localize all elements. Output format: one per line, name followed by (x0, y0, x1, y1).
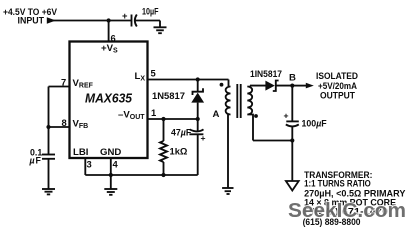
capacitor C2 0.1uF (29, 148, 56, 190)
svg-text:OUTPUT: OUTPUT (320, 90, 355, 101)
svg-text:+: + (284, 110, 289, 120)
svg-text:µ: µ (29, 156, 35, 166)
svg-text:1kΩ: 1kΩ (170, 146, 188, 157)
watermark (288, 199, 406, 222)
isolated common triangle (286, 181, 299, 191)
transformer T1 primary (226, 80, 231, 189)
pin 8 stub (49, 126, 70, 128)
wire input to cap (53, 20, 131, 22)
svg-text:1N5817: 1N5817 (152, 91, 185, 101)
wire to isolated common (291, 141, 293, 182)
wire vref to vfb (48, 87, 50, 155)
transformer note (303, 170, 406, 228)
svg-text:SeekIC.com: SeekIC.com (288, 199, 406, 222)
IC U1 MAX635 (70, 42, 148, 159)
capacitor C3 47uF (171, 119, 206, 175)
svg-text:3: 3 (87, 159, 92, 170)
svg-text:+: + (122, 10, 128, 21)
svg-text:A: A (213, 109, 220, 120)
svg-text:10µF: 10µF (142, 7, 159, 17)
output label (316, 71, 358, 101)
svg-text:INPUT: INPUT (18, 16, 45, 27)
junction dot vfb (46, 125, 50, 129)
svg-text:1IN5817: 1IN5817 (250, 69, 282, 79)
junction dot resistor top (161, 117, 165, 121)
svg-text:MAX635: MAX635 (85, 91, 133, 106)
junction dot resistor bottom (161, 173, 165, 177)
wire to pin 6 (108, 21, 110, 43)
node B dot (290, 84, 294, 88)
transformer phasing dot primary (220, 83, 224, 87)
pin 3 stub (84, 158, 86, 175)
output arrow wire (292, 85, 306, 87)
ground pin4 (104, 175, 117, 195)
ground C2 (42, 189, 55, 194)
bottom ground wire (85, 174, 197, 176)
svg-text:GND: GND (100, 147, 121, 158)
svg-text:47µF: 47µF (171, 127, 192, 137)
pin 7 stub (49, 86, 70, 88)
wire Lx to transformer (148, 79, 229, 81)
diode D2 1N5817 (250, 69, 292, 91)
svg-text:1: 1 (151, 107, 156, 118)
junction dot pin6 node (107, 18, 111, 22)
svg-text:100µF: 100µF (302, 119, 328, 129)
svg-text:B: B (289, 73, 296, 84)
input label (3, 7, 58, 27)
transformer T1 secondary (247, 86, 265, 141)
junction dot diode top (196, 77, 200, 81)
ground transformer primary (222, 188, 233, 194)
transformer phasing dot secondary (254, 114, 258, 118)
svg-text:F: F (36, 156, 42, 166)
svg-text:LBI: LBI (73, 147, 89, 158)
junction dot pin4 (109, 173, 113, 177)
transformer core (236, 84, 238, 118)
capacitor C4 100uF (284, 110, 328, 140)
svg-text:5: 5 (151, 68, 156, 79)
secondary return wire (253, 140, 292, 142)
svg-text:4: 4 (113, 159, 119, 170)
svg-text:+: + (201, 133, 206, 143)
node A wire (148, 118, 198, 120)
input arrow (47, 17, 56, 23)
capacitor C1 10uF (122, 7, 160, 27)
pin 4 stub (110, 158, 112, 175)
ground input (154, 21, 167, 34)
resistor R1 1kOhm (160, 119, 188, 175)
junction dot diode bottom (196, 117, 200, 121)
diode D1 1N5817 (152, 80, 204, 120)
wire node B to 100uF (291, 86, 293, 121)
junction dot return (290, 138, 294, 142)
